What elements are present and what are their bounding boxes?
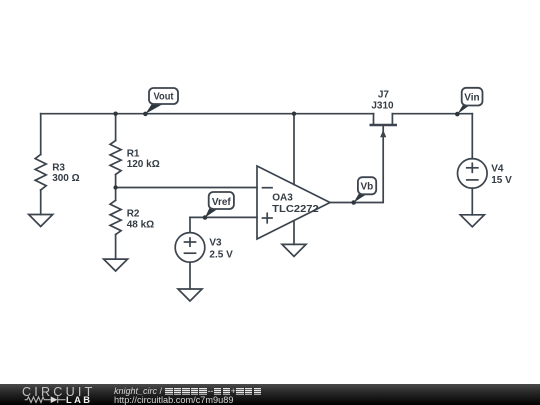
op-amp OA3 non-inverting input symbol [263,213,273,223]
svg-text:Vref: Vref [212,197,232,208]
resistor R1 [110,114,121,188]
transistor J7 channel bar [371,124,396,127]
transistor J7 source stub [391,114,393,124]
transistor J7 gate arrow [380,130,386,137]
voltage source V3 [175,233,205,263]
node Vref flag [203,192,234,220]
node Vb flag [351,177,376,205]
wire: Vref node down to V3 plus terminal [189,217,191,232]
footer caption line 1 [114,386,262,396]
svg-text:V4: V4 [491,164,504,175]
ground below V3 [178,289,202,301]
svg-text:OA3: OA3 [272,192,293,203]
wire: top rail right segment (Vin net) [392,113,472,115]
svg-text:R3: R3 [52,162,65,173]
wire: Vin node down to V4 plus terminal [471,114,473,159]
wire: R1/R2 junction to op-amp inverting input [116,187,257,189]
ground below R3 [29,215,53,227]
svg-text:120 kΩ: 120 kΩ [127,159,160,170]
transistor J7 drain stub [373,114,375,124]
wire: op-amp positive supply pin to top rail [293,114,295,185]
footer caption line 2 [114,395,234,405]
wire: op-amp output to JFET gate (Vb net) [330,126,383,203]
svg-text:R2: R2 [127,208,140,219]
svg-text:300 Ω: 300 Ω [52,173,79,184]
svg-text:Vout: Vout [154,91,175,102]
wire: op-amp negative supply pin to ground [293,221,295,245]
wire: top rail left segment (Vout net) [41,113,374,115]
svg-text:J310: J310 [371,100,394,111]
ground below V4 [460,215,484,227]
CircuitLab footer logo [0,384,110,405]
op-amp OA3 triangle [257,166,330,239]
svg-text:LAB: LAB [66,394,92,405]
CircuitLab footer bar [0,384,540,405]
voltage source V4 [458,159,488,189]
op-amp OA3 inverting input symbol [263,187,273,189]
svg-text:Vb: Vb [361,181,374,192]
resistor R3 [35,114,46,215]
svg-text:15 V: 15 V [491,175,512,186]
svg-text:J7: J7 [378,90,390,101]
svg-text:2.5 V: 2.5 V [209,249,233,260]
ground below op-amp OA3 [282,244,306,256]
junction: R1/R2 divider tap [113,185,117,189]
node Vout flag [143,88,178,116]
wire: V3 minus terminal to ground [189,262,191,289]
wire: V4 minus terminal to ground [471,188,473,215]
node Vin flag [455,88,483,117]
junction: R1 top on Vout rail [113,112,117,116]
junction: op-amp supply on Vout rail [292,112,296,116]
svg-text:V3: V3 [209,238,222,249]
svg-text:48 kΩ: 48 kΩ [127,219,154,230]
svg-text:TLC2272: TLC2272 [272,204,319,215]
wire: Vref node to op-amp non-inverting input [190,216,257,218]
svg-text:Vin: Vin [464,92,479,103]
ground below R2 [104,259,128,271]
resistor R2 [110,188,121,260]
